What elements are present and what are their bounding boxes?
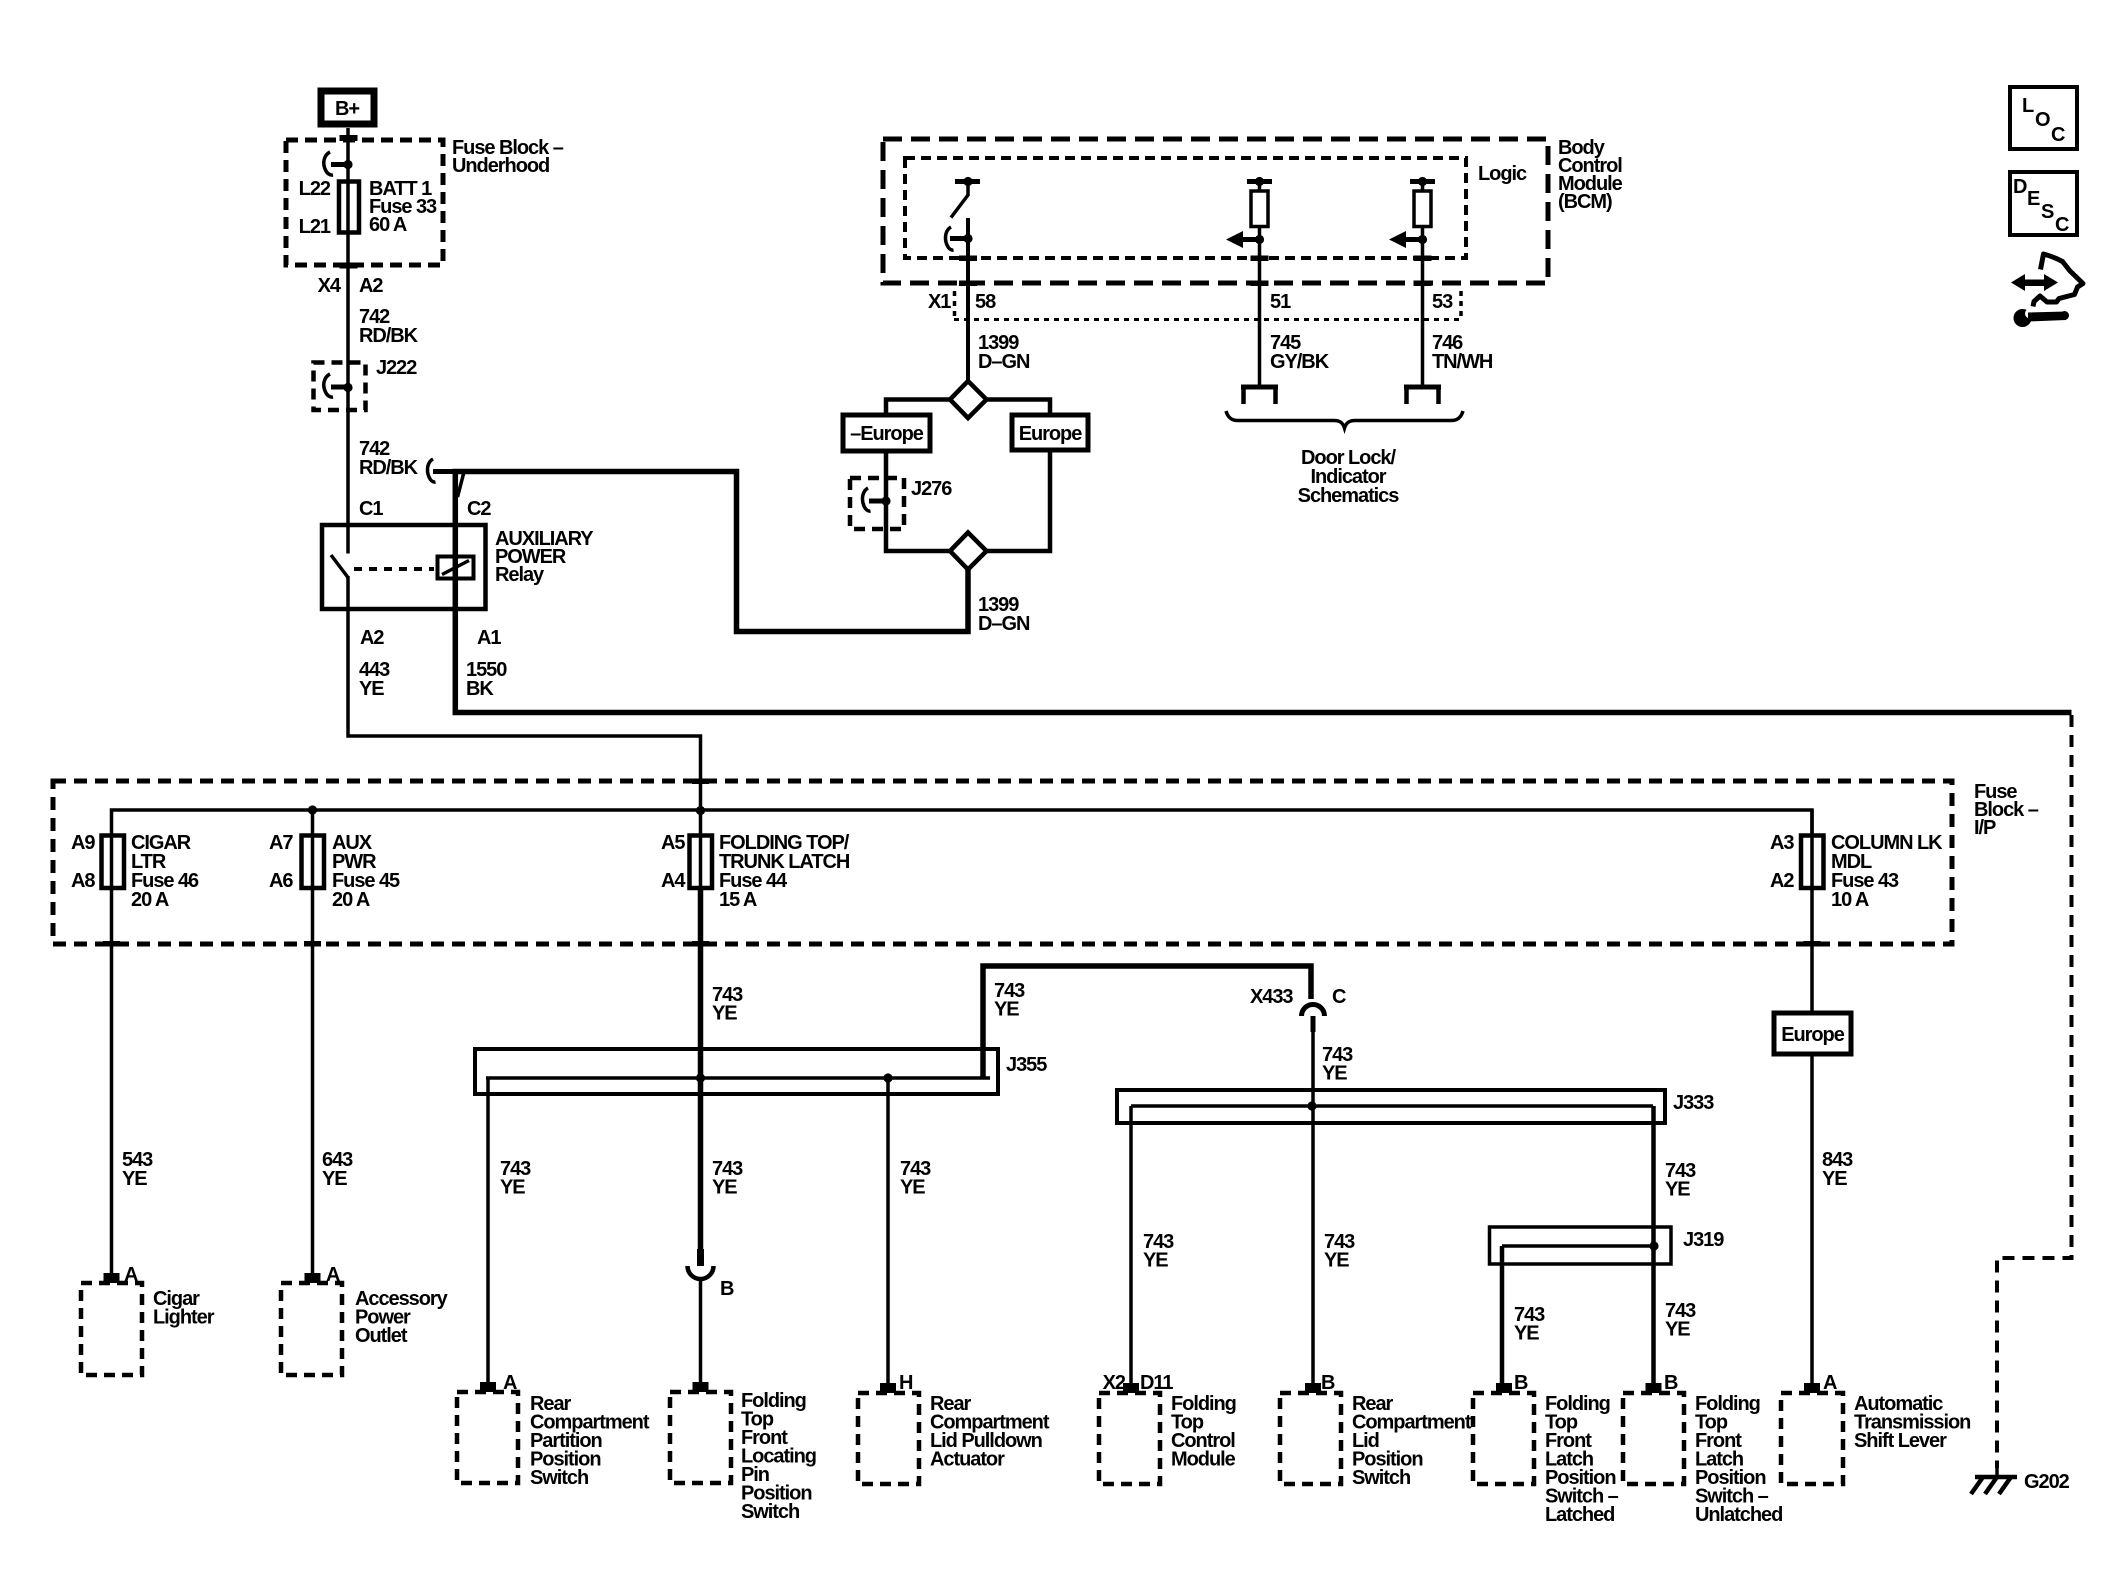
wire J355 to lid pulldown actuator <box>886 1078 890 1393</box>
svg-text:BK: BK <box>466 678 494 700</box>
Fuse Block - I/P dashed box <box>53 781 1952 944</box>
svg-text:A5: A5 <box>661 832 685 854</box>
svg-text:GY/BK: GY/BK <box>1270 351 1330 373</box>
BCM internal switch <box>951 177 980 218</box>
schematic navigation icon arrows and wrench <box>2011 254 2083 327</box>
wire A2 443 YE down right to fuse block <box>348 609 701 812</box>
svg-text:D11: D11 <box>1140 1372 1173 1394</box>
svg-text:J319: J319 <box>1683 1229 1724 1251</box>
Rear Compartment Lid Pulldown Actuator dashed box <box>858 1393 919 1484</box>
wire fuse to relay C1 <box>346 234 350 554</box>
Accessory Power Outlet dashed box <box>281 1283 342 1375</box>
svg-text:RD/BK: RD/BK <box>359 457 419 479</box>
relay switch contact stub <box>346 576 350 609</box>
svg-text:Module: Module <box>1171 1449 1236 1471</box>
pin tick at fuse block bottom <box>340 263 358 269</box>
svg-text:Switch: Switch <box>530 1467 588 1489</box>
svg-text:20 A: 20 A <box>332 889 370 911</box>
thick wire fuse 44 down to splice J355 and connector B <box>698 888 704 1250</box>
wire diamond to Europe branch <box>987 400 1051 416</box>
svg-text:YE: YE <box>712 1177 737 1199</box>
svg-text:YE: YE <box>1324 1250 1349 1272</box>
Fuse Block - Underhood (dashed box) <box>286 140 443 265</box>
svg-text:Latched: Latched <box>1545 1504 1614 1526</box>
wire through fuse 46 to cigar lighter <box>110 836 114 1284</box>
svg-text:Europe: Europe <box>1781 1024 1845 1046</box>
svg-text:YE: YE <box>122 1168 147 1190</box>
svg-text:58: 58 <box>975 291 996 313</box>
svg-text:X4: X4 <box>318 275 342 297</box>
wire J333 right leg through J319 <box>1651 1106 1656 1393</box>
svg-text:YE: YE <box>994 999 1019 1021</box>
svg-text:Unlatched: Unlatched <box>1695 1504 1782 1526</box>
svg-text:A1: A1 <box>477 627 501 649</box>
connector curl at C2 <box>427 459 435 482</box>
svg-text:C: C <box>2051 124 2065 146</box>
svg-text:Europe: Europe <box>1019 423 1083 445</box>
wire through fuse 44 <box>699 810 703 888</box>
inline connector B pin and cup <box>688 1249 714 1279</box>
connector slash at C2 <box>458 470 465 497</box>
svg-text:D: D <box>2013 176 2027 198</box>
Cigar Lighter dashed box <box>81 1283 142 1375</box>
relay coil <box>438 557 474 579</box>
svg-text:E: E <box>2027 188 2040 210</box>
svg-text:D–GN: D–GN <box>978 351 1030 373</box>
svg-text:20 A: 20 A <box>131 889 169 911</box>
Folding Top Front Locating Pin Position Switch dashed box <box>670 1392 731 1483</box>
svg-text:J333: J333 <box>1673 1092 1714 1114</box>
svg-text:B: B <box>1514 1372 1528 1394</box>
svg-text:RD/BK: RD/BK <box>359 325 419 347</box>
svg-text:YE: YE <box>1665 1179 1690 1201</box>
Rear Compartment Lid Position Switch dashed box <box>1280 1393 1341 1484</box>
svg-text:YE: YE <box>712 1003 737 1025</box>
svg-text:Lighter: Lighter <box>153 1307 215 1329</box>
svg-text:Underhood: Underhood <box>452 155 549 177</box>
wire J355 left leg to partition switch <box>486 1078 490 1392</box>
svg-text:I/P: I/P <box>1974 817 1996 839</box>
fuse 45 AUX PWR <box>302 836 325 889</box>
svg-text:C: C <box>1332 986 1346 1008</box>
splice J276 dashed box <box>850 478 904 529</box>
svg-text:S: S <box>2041 201 2054 223</box>
svg-text:J355: J355 <box>1006 1054 1047 1076</box>
ground symbol G202 <box>1971 1468 2017 1494</box>
bus junction dot A7 <box>308 805 317 814</box>
svg-text:A2: A2 <box>359 275 383 297</box>
Folding Top Front Latch Position Switch Unlatched dashed box <box>1623 1393 1684 1484</box>
Rear Compartment Partition Position Switch dashed box <box>457 1392 518 1483</box>
svg-text:A6: A6 <box>269 870 293 892</box>
splice pack J333 <box>1117 1090 1665 1123</box>
pin ticks at BCM outer box bottom <box>959 281 977 287</box>
hidden ground path dashed to G202 <box>1997 715 2072 1468</box>
svg-text:Outlet: Outlet <box>355 1325 408 1347</box>
svg-text:J222: J222 <box>376 357 417 379</box>
option box -Europe <box>843 415 930 451</box>
svg-text:X1: X1 <box>928 291 951 313</box>
svg-text:G202: G202 <box>2024 1471 2070 1493</box>
wire through fuse 43 to Europe box <box>1810 810 1814 1013</box>
svg-text:A8: A8 <box>71 870 95 892</box>
svg-text:YE: YE <box>1822 1168 1847 1190</box>
wire BCM pin 58 down to diamond <box>966 218 970 382</box>
svg-text:TN/WH: TN/WH <box>1432 351 1493 373</box>
pin ticks at I/P bottom <box>103 941 120 947</box>
svg-text:10 A: 10 A <box>1831 889 1869 911</box>
fuse BATT 1 Fuse 33 60 A <box>339 180 359 234</box>
diamond junction lower <box>950 533 987 570</box>
svg-text:X433: X433 <box>1250 986 1293 1008</box>
option box Europe <box>1012 415 1088 450</box>
svg-text:A2: A2 <box>360 627 384 649</box>
svg-text:L: L <box>2022 95 2034 117</box>
svg-text:A2: A2 <box>1770 870 1794 892</box>
svg-text:YE: YE <box>322 1168 347 1190</box>
continuation cup pin 51 wire <box>1241 387 1278 404</box>
svg-text:A: A <box>1823 1372 1837 1394</box>
svg-text:YE: YE <box>1514 1323 1539 1345</box>
BCM resistor driver pin 51 <box>1226 177 1272 385</box>
bus junction dot A5 <box>696 806 705 815</box>
svg-text:L21: L21 <box>299 216 331 238</box>
fuse 44 FOLDING TOP TRUNK LATCH <box>690 836 713 889</box>
splice J222 (dashed box) <box>314 363 366 411</box>
brace Door Lock Indicator Schematics <box>1226 411 1463 428</box>
thick branch J355 to connector X433 <box>983 966 1311 1078</box>
wire J333 left leg to folding top control module <box>1129 1106 1133 1393</box>
svg-text:Actuator: Actuator <box>930 1449 1005 1471</box>
BCM Logic inner dashed box <box>905 158 1466 258</box>
fuse 46 CIGAR LTR <box>102 836 125 889</box>
splice pack J355 <box>475 1049 998 1094</box>
svg-text:51: 51 <box>1270 291 1291 313</box>
pin tick at fuse block top <box>340 135 358 141</box>
splice curl inside fuse block <box>324 152 333 175</box>
wire Europe down to diamond lower <box>987 450 1051 551</box>
svg-text:YE: YE <box>1665 1319 1690 1341</box>
connector X433 cup and pin <box>1302 1005 1325 1017</box>
AUXILIARY POWER Relay box <box>322 525 486 609</box>
LOC icon box <box>2010 87 2077 149</box>
svg-text:YE: YE <box>1322 1063 1347 1085</box>
svg-text:D–GN: D–GN <box>978 613 1030 635</box>
svg-text:A4: A4 <box>661 870 686 892</box>
svg-text:–Europe: –Europe <box>850 423 924 445</box>
fuse block bus wire <box>112 810 1813 836</box>
Automatic Transmission Shift Lever dashed box <box>1781 1393 1843 1484</box>
svg-text:B: B <box>1664 1372 1678 1394</box>
splice curl on pin 58 wire <box>945 227 953 250</box>
svg-text:Switch: Switch <box>741 1501 799 1523</box>
wire -Europe down through J276 <box>886 451 950 551</box>
svg-text:X2: X2 <box>1103 1372 1126 1394</box>
Europe option box on circuit 843 <box>1774 1013 1851 1054</box>
svg-text:60 A: 60 A <box>369 214 407 236</box>
svg-text:YE: YE <box>900 1177 925 1199</box>
fuse 43 COLUMN LK MDL <box>1801 836 1824 889</box>
pin tick at I/P top for feed wire <box>692 779 709 785</box>
Folding Top Front Latch Position Switch Latched dashed box <box>1473 1393 1534 1484</box>
wire B+ to fuse block <box>346 128 350 180</box>
svg-text:YE: YE <box>359 678 384 700</box>
pin ticks at Logic box bottom <box>959 256 977 262</box>
svg-text:Schematics: Schematics <box>1298 485 1400 507</box>
svg-text:53: 53 <box>1432 291 1453 313</box>
svg-text:B: B <box>720 1278 734 1300</box>
wire X433 down through J333 to lid position switch <box>1311 1032 1315 1393</box>
svg-text:O: O <box>2035 109 2050 131</box>
svg-text:YE: YE <box>500 1177 525 1199</box>
diamond junction upper <box>950 381 987 418</box>
DESC icon box <box>2010 172 2077 236</box>
svg-text:(BCM): (BCM) <box>1558 191 1612 213</box>
svg-text:L22: L22 <box>299 178 331 200</box>
Body Control Module BCM outer dashed box <box>883 139 1548 283</box>
svg-text:A9: A9 <box>71 832 95 854</box>
wire Europe box to shift lever <box>1810 1054 1814 1393</box>
wire J319 left leg to latched switch <box>1500 1246 1505 1393</box>
svg-text:YE: YE <box>1143 1250 1168 1272</box>
splice pack J319 <box>1490 1227 1672 1264</box>
svg-text:15 A: 15 A <box>719 889 757 911</box>
battery feed B+ terminal <box>321 91 374 124</box>
Folding Top Control Module dashed box <box>1099 1393 1160 1484</box>
svg-text:A3: A3 <box>1770 832 1794 854</box>
svg-text:J276: J276 <box>911 478 952 500</box>
thick wire C2 coil feed loop 1399 <box>455 472 968 632</box>
svg-text:Shift Lever: Shift Lever <box>1854 1430 1947 1452</box>
continuation cup pin 53 wire <box>1404 387 1441 404</box>
svg-text:Relay: Relay <box>495 564 545 586</box>
svg-text:H: H <box>899 1372 913 1394</box>
svg-text:C1: C1 <box>359 498 383 520</box>
wire through fuse 45 to accessory outlet <box>311 810 315 1283</box>
relay actuation dashed link <box>354 567 434 571</box>
svg-text:B+: B+ <box>335 98 359 120</box>
wire diamond to -Europe branch <box>886 400 950 416</box>
svg-text:B: B <box>1321 1372 1335 1394</box>
svg-text:C: C <box>2055 214 2069 236</box>
relay switch blade <box>331 555 348 578</box>
wire connector B to locating pin switch <box>699 1279 703 1392</box>
svg-text:Switch: Switch <box>1352 1467 1410 1489</box>
BCM resistor driver pin 53 <box>1389 177 1435 385</box>
svg-text:C2: C2 <box>467 498 491 520</box>
svg-text:Logic: Logic <box>1478 163 1527 185</box>
svg-text:A7: A7 <box>269 832 293 854</box>
thick wire A1 1550 BK to right edge <box>455 609 2071 713</box>
